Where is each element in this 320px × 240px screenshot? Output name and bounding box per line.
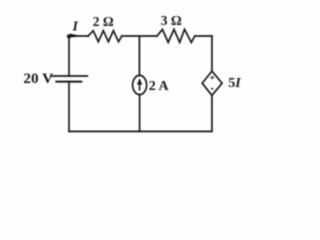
svg-text:20 V: 20 V	[23, 70, 53, 87]
dependent source plus mark	[211, 76, 215, 80]
battery V1 bottom plate	[56, 81, 81, 83]
wire left vertical upper	[68, 36, 70, 76]
wire left vertical lower	[68, 82, 70, 132]
wire top-right segment	[195, 35, 212, 37]
battery V1 top plate (with label lead)	[51, 75, 87, 77]
wire bottom	[69, 130, 212, 132]
current source I1 arrow	[139, 84, 141, 91]
node A junction dot	[67, 34, 71, 38]
wire right vertical upper	[211, 36, 213, 71]
svg-text:I: I	[72, 20, 79, 35]
current arrow I head	[70, 34, 78, 38]
wire between resistors	[122, 35, 157, 37]
svg-text:2 A: 2 A	[149, 79, 170, 94]
dependent source U1 diamond	[202, 71, 222, 95]
svg-text:3 Ω: 3 Ω	[161, 13, 182, 28]
current source I1 ellipse	[133, 75, 147, 94]
svg-text:5I: 5I	[228, 76, 241, 91]
resistor R2 3Ω zigzag	[157, 29, 195, 42]
wire right vertical lower	[211, 95, 213, 131]
svg-text:2 Ω: 2 Ω	[93, 14, 114, 29]
resistor R1 2Ω zigzag	[88, 31, 122, 42]
wire top-left segment	[69, 35, 88, 37]
wire middle vertical upper	[138, 36, 140, 76]
wire middle vertical lower	[139, 95, 141, 132]
dependent source minus dot	[211, 88, 213, 90]
